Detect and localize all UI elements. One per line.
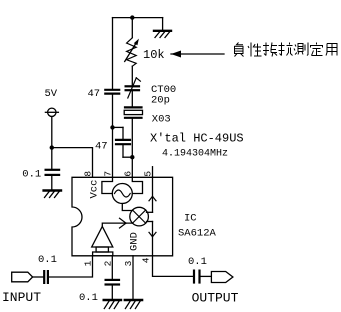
connector INPUT tag [12,272,33,282]
capacitor C 0.1 bypass [46,170,60,175]
wire amp to mixer with arrow [102,218,132,228]
svg-text:47: 47 [95,140,108,152]
capacitor C 0.1 pin2 [106,280,119,285]
wire pin4 internal with down arrow [149,222,156,256]
oscillator sine [115,190,131,197]
svg-text:0.1: 0.1 [22,168,41,180]
svg-text:7: 7 [103,171,114,177]
kanji 抗 [279,43,293,56]
mixer circle [130,207,149,226]
ground pin2 [104,300,121,309]
svg-text:SA612A: SA612A [178,228,217,240]
wire bypass cap to ground [51,175,53,190]
node junction top [130,15,134,19]
svg-text:0.1: 0.1 [38,254,57,266]
wire 5V to bypass cap [51,148,53,169]
annotation text (kanji) 負性抵抗測定用 [235,43,338,57]
wire pin5 internal with up arrow [149,177,156,212]
svg-text:INPUT: INPUT [2,290,41,305]
svg-text:4.194304MHz: 4.194304MHz [162,148,228,159]
svg-text:X03: X03 [152,113,171,125]
svg-text:6: 6 [123,171,134,177]
kanji 用 [326,44,337,56]
oscillator bracket left [102,177,113,193]
capacitor C 0.1 output [194,271,200,283]
amplifier pedestal [96,247,108,252]
resistor VR1 10k (variable) [125,38,139,66]
capacitor C 0.1 input [44,271,48,283]
node junction 5V [50,145,54,149]
kanji 負 [235,43,244,57]
wire trimmer to crystal [131,90,133,106]
ground pin3 [125,300,142,309]
kanji 測 [294,43,308,56]
svg-text:10k: 10k [143,48,165,62]
wire pin2 cap to ground [111,285,113,300]
node junction crystal line [130,155,134,159]
svg-text:8: 8 [83,171,94,177]
svg-text:0.1: 0.1 [79,292,98,304]
wire top horizontal [113,17,163,19]
kanji 性 [248,43,262,57]
node junction left line [110,125,114,129]
capacitor C 47 upper (in left line) [105,90,119,94]
wire mixer to pin4 line [147,221,153,223]
wire middle vertical top [131,18,133,38]
wire 5V down [51,117,53,148]
annotation arrow [171,51,224,58]
crystal X03 [124,107,142,117]
svg-text:20p: 20p [151,94,170,106]
wire left vertical (pin7 line) [112,18,114,89]
svg-text:4: 4 [141,257,152,263]
wire output cap to tag [201,275,212,277]
pin 5 NC stub [152,167,154,178]
wire 5V to pin8 [52,148,93,178]
svg-text:47: 47 [88,88,101,100]
svg-text:OUTPUT: OUTPUT [192,290,239,305]
wire oscillator to mixer [122,204,132,211]
wire input tag to cap [33,276,44,278]
oscillator circle [112,184,132,204]
mixer X [133,210,146,223]
svg-text:X'tal HC-49US: X'tal HC-49US [150,131,244,145]
svg-text:GND: GND [129,232,141,251]
wire resistor to trimmer [131,66,133,85]
wire crystal to pin6 [131,118,133,178]
wire pin2 down [111,256,113,279]
connector OUTPUT tag [211,272,233,283]
ground left [44,191,61,198]
svg-text:Vcc: Vcc [89,180,101,199]
oscillator bracket right [132,177,142,193]
wire pin3 down [132,256,134,300]
amplifier triangle [92,226,113,247]
wire mixer to pin5 line [147,211,153,213]
wire input cap to pin1 [49,256,93,277]
svg-text:IC: IC [184,212,197,224]
op-amp U1 SA612A body [72,177,173,256]
power terminal 5V [45,108,58,116]
svg-text:5V: 5V [45,88,58,100]
svg-text:0.1: 0.1 [188,256,207,268]
kanji 抵 [263,43,277,57]
capacitor C 47 lower (branch) [113,127,133,157]
wire pin4 to output cap [153,256,194,277]
kanji 定 [311,43,323,56]
capacitor CT00 trimmer 20p [126,78,141,98]
ground top-right [154,18,171,38]
